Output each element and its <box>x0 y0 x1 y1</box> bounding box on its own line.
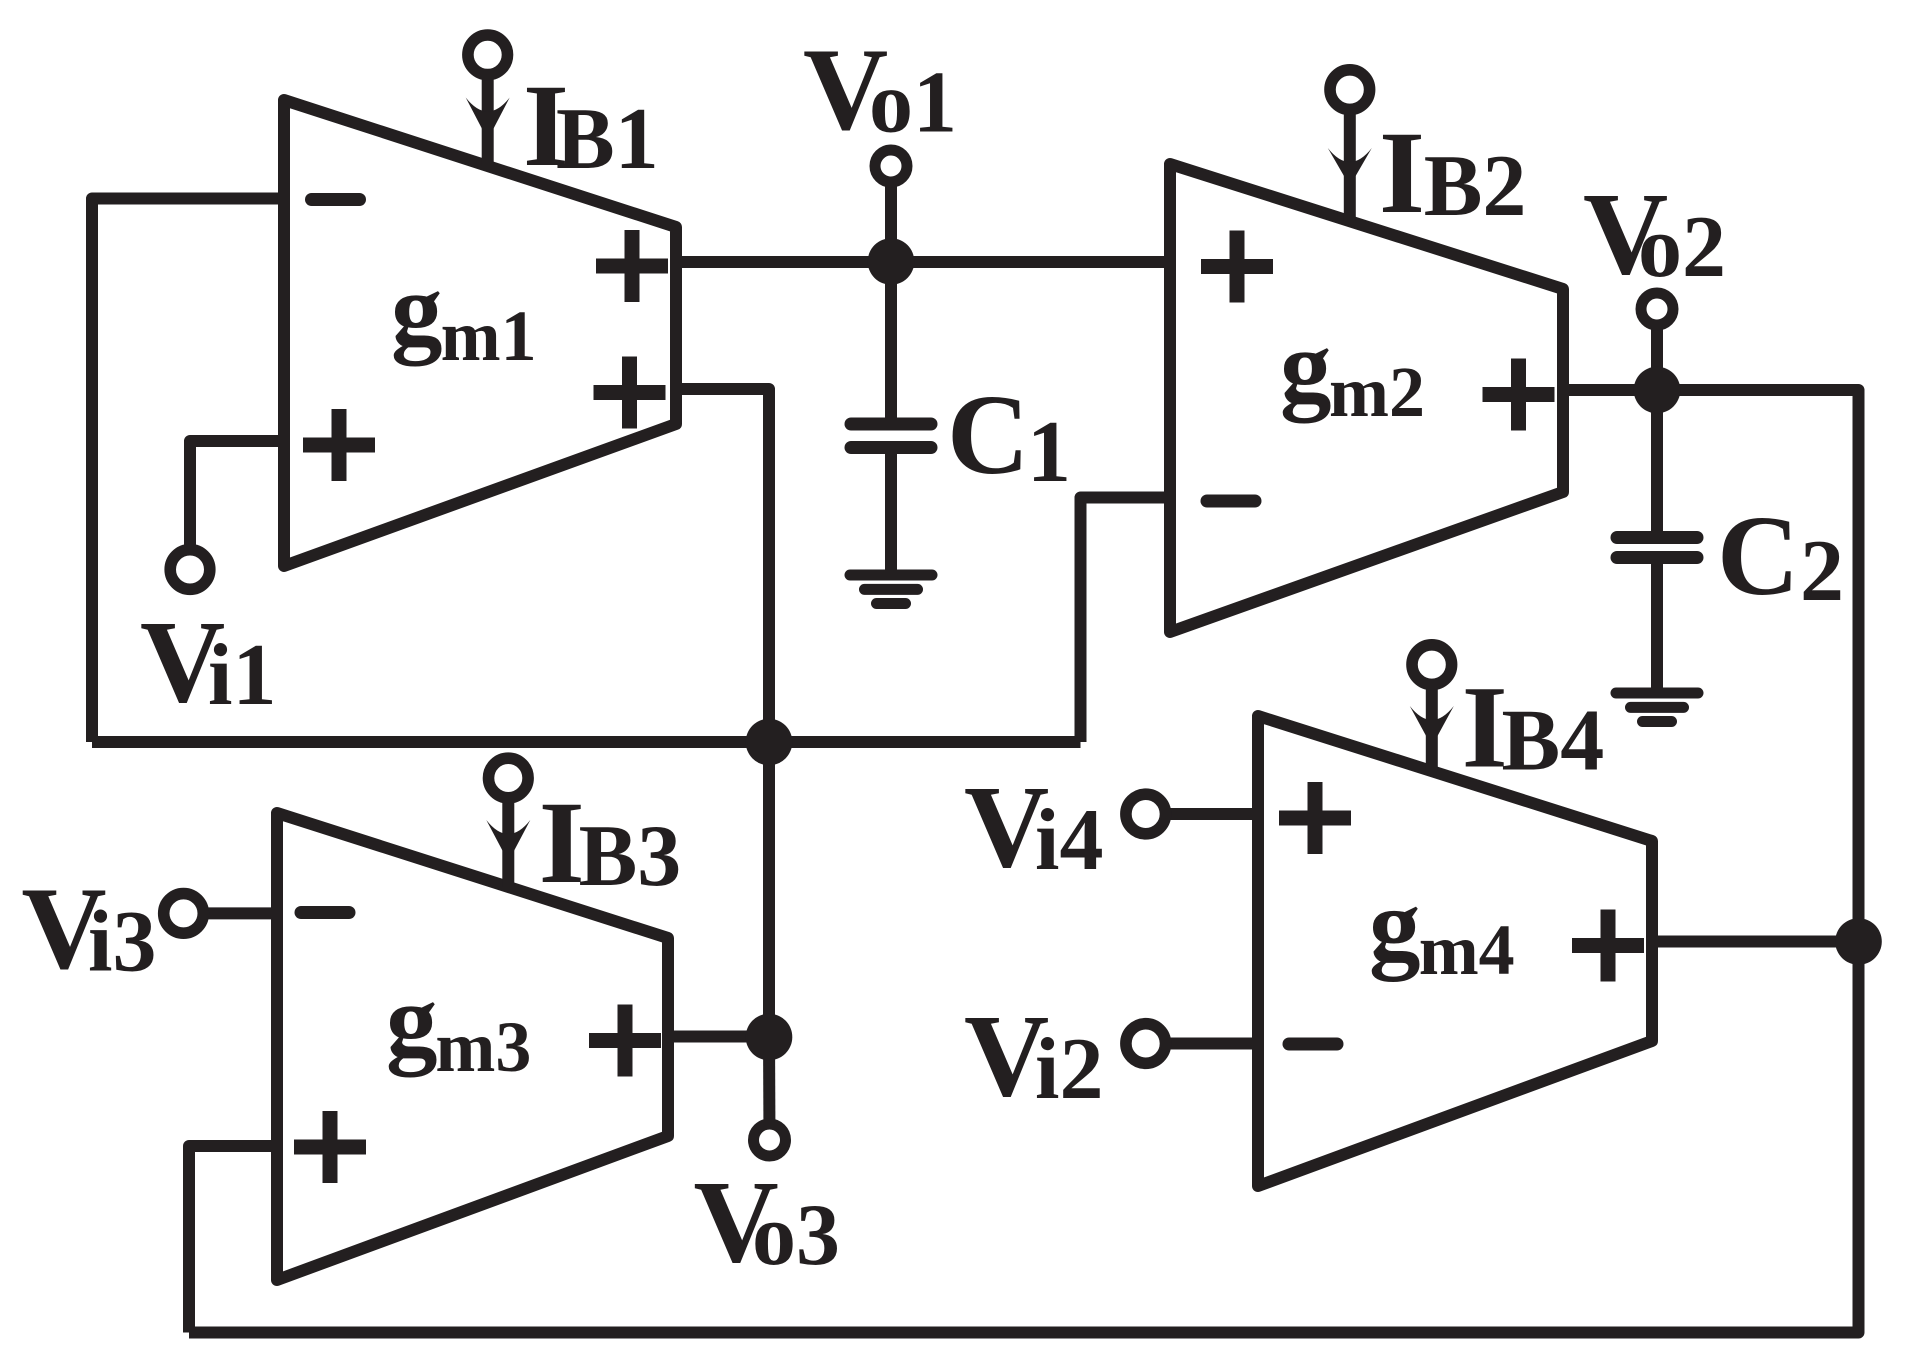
label Vi4 <box>964 761 1103 892</box>
svg-text:2: 2 <box>1800 523 1844 620</box>
wire Vi3 to gm3 inverting input <box>184 907 278 919</box>
label IB4 <box>1462 662 1605 793</box>
wire to gm2 inverting input <box>1081 498 1171 743</box>
wire node Vo3 to Vo3 terminal <box>763 1037 776 1140</box>
svg-text:m4: m4 <box>1419 910 1515 990</box>
svg-text:i3: i3 <box>88 894 156 991</box>
label IB3 <box>539 777 682 908</box>
label Vo3 <box>694 1156 841 1287</box>
node Vo3 junction (center) <box>746 719 793 766</box>
wire Vi1 terminal to gm1 + input <box>190 441 284 570</box>
label IB1 <box>523 60 659 191</box>
svg-text:m1: m1 <box>441 296 537 376</box>
svg-text:i2: i2 <box>1035 1021 1103 1118</box>
gm3 inverting input '−' mark <box>301 906 349 919</box>
svg-text:g: g <box>1369 869 1421 983</box>
label Vo1 <box>803 24 957 155</box>
bias current source IB2 (terminal, arrow into gm2) <box>1328 70 1372 221</box>
svg-text:I: I <box>1379 107 1425 238</box>
op-amp OTA U3 gm3 trapezoid body <box>277 813 668 1280</box>
gm3 non-inverting input '+' mark <box>294 1111 366 1183</box>
label Vi1 <box>140 596 276 727</box>
label Vi2 <box>964 990 1103 1121</box>
terminal Vi4 <box>1126 794 1166 834</box>
wire Vo2 terminal stub <box>1651 309 1663 390</box>
wire gm4 output to node Vo2 net <box>1652 936 1859 948</box>
wire node Vo1 to C1 top plate <box>885 262 897 418</box>
wire Vo1 terminal stub <box>885 166 897 262</box>
wire node Vo1: gm1 output to gm2 + input <box>676 256 1170 268</box>
node Vo1 junction <box>868 238 915 285</box>
wire Vi2 to gm4 inverting input <box>1146 1038 1258 1050</box>
svg-text:C: C <box>1717 492 1799 619</box>
svg-text:m2: m2 <box>1329 352 1425 432</box>
terminal Vi1 <box>170 550 210 590</box>
op-amp OTA U2 gm2 trapezoid body <box>1170 164 1563 632</box>
label C2 <box>1717 492 1844 620</box>
wire C2 bottom plate to ground <box>1651 564 1663 694</box>
svg-text:g: g <box>386 964 438 1078</box>
gm4 output '+' polarity mark <box>1572 910 1644 982</box>
terminal Vo2 <box>1641 293 1673 325</box>
wire Vi4 to gm4 + input <box>1146 808 1258 820</box>
svg-text:B3: B3 <box>579 808 682 905</box>
wire gm1 second output down to node Vo3 <box>676 389 769 1037</box>
svg-text:g: g <box>391 253 443 367</box>
svg-text:i1: i1 <box>208 627 276 724</box>
bias current source IB3 (terminal, arrow into gm3) <box>486 758 530 887</box>
terminal Vi3 <box>164 894 204 934</box>
gm1 output '+' polarity mark (bottom) <box>594 357 666 429</box>
gm2 inverting input '−' mark <box>1207 495 1255 508</box>
capacitor C1 plates <box>851 424 931 448</box>
svg-text:o2: o2 <box>1638 199 1726 296</box>
terminal Vo3 <box>754 1124 786 1156</box>
op-amp OTA U4 gm4 trapezoid body <box>1258 716 1652 1186</box>
label gm3 <box>386 964 531 1087</box>
svg-text:o3: o3 <box>752 1187 840 1284</box>
ground below C1 <box>850 575 932 604</box>
gm3 output '+' polarity mark <box>589 1005 661 1077</box>
svg-text:B4: B4 <box>1502 693 1605 790</box>
gm2 non-inverting input '+' mark <box>1201 231 1273 303</box>
wire Vo3 net horizontal run <box>92 736 1081 748</box>
gm2 output '+' polarity mark <box>1483 359 1555 431</box>
svg-text:m3: m3 <box>435 1007 531 1087</box>
svg-text:1: 1 <box>1027 404 1071 501</box>
gm1 output '+' polarity mark (top) <box>596 230 668 302</box>
gm1 inverting input '−' mark <box>312 193 360 206</box>
wire gm2 output to node Vo2, right vertical and bottom feedback run <box>189 390 1859 1333</box>
svg-text:g: g <box>1280 310 1332 424</box>
svg-text:C: C <box>947 371 1029 498</box>
wire gm1 inverting-input feedback (node Vo3 net, left run) <box>92 199 284 743</box>
label gm1 <box>391 253 537 376</box>
op-amp OTA U1 gm1 trapezoid body <box>284 100 676 566</box>
gm4 non-inverting input '+' mark <box>1279 782 1351 854</box>
svg-text:i4: i4 <box>1035 792 1103 889</box>
gm1 non-inverting input '+' mark <box>303 409 375 481</box>
label C1 <box>947 371 1071 501</box>
label gm2 <box>1280 310 1425 432</box>
svg-text:B1: B1 <box>556 91 659 188</box>
capacitor C2 plates <box>1617 538 1697 558</box>
terminal Vi2 <box>1126 1024 1166 1064</box>
wire gm3 + input to bottom feedback run <box>189 1146 277 1333</box>
terminal Vo1 <box>875 150 907 182</box>
svg-text:B2: B2 <box>1424 138 1527 235</box>
node Vo3 junction (gm3 output) <box>746 1014 793 1061</box>
node Vo2 junction <box>1634 367 1681 414</box>
wire C1 bottom plate to ground <box>885 454 897 575</box>
ground below C2 <box>1616 693 1698 722</box>
svg-text:o1: o1 <box>869 55 957 152</box>
label Vo2 <box>1583 168 1726 299</box>
wire node Vo2 to C2 top plate <box>1651 390 1663 532</box>
label gm4 <box>1369 869 1515 990</box>
gm4 inverting input '−' mark <box>1289 1038 1337 1051</box>
node Vo2 net junction (gm4 output) <box>1835 918 1882 965</box>
wire gm3 output stub to node Vo3 <box>668 1031 769 1043</box>
label IB2 <box>1379 107 1526 238</box>
bias current source IB1 (terminal, arrow into gm1) <box>466 35 510 166</box>
label Vi3 <box>21 863 156 994</box>
bias current source IB4 (terminal, arrow into gm4) <box>1410 645 1454 771</box>
